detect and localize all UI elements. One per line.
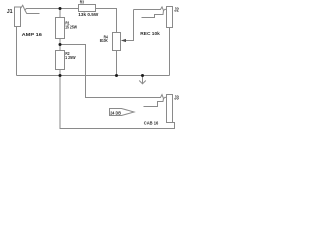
svg-text:1 25W: 1 25W — [65, 55, 76, 61]
svg-text:J3: J3 — [174, 96, 179, 102]
svg-text:B10K: B10K — [100, 38, 108, 44]
svg-text:J2: J2 — [174, 8, 179, 14]
svg-text:24 DB: 24 DB — [110, 110, 121, 115]
svg-text:REC 10k: REC 10k — [140, 31, 160, 37]
svg-text:13k 0.5W: 13k 0.5W — [78, 12, 98, 18]
svg-text:CAB 16: CAB 16 — [144, 120, 159, 126]
svg-text:J1: J1 — [7, 9, 13, 15]
svg-text:15 25W: 15 25W — [65, 24, 77, 30]
svg-text:AMP 16: AMP 16 — [22, 32, 43, 38]
svg-text:R3: R3 — [80, 0, 84, 6]
